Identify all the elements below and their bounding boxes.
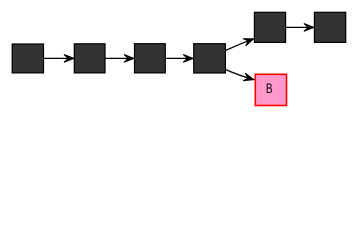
svg-text:B: B (266, 81, 273, 97)
wire edge4 box4->box5 diagonal up (225, 39, 254, 51)
node box2 (74, 44, 105, 73)
node box1 (12, 44, 43, 73)
wire edge1 box1->box2 (44, 57, 75, 59)
node box3 (135, 44, 166, 73)
node box4 (194, 44, 226, 73)
wire edge5 box4->nodeB diagonal down (225, 70, 254, 80)
flowchart diagram (0, 0, 360, 120)
wire edge3 box3->box4 (165, 57, 193, 59)
wire edge2 box2->box3 (105, 57, 134, 59)
node box6 (314, 12, 345, 42)
wire edge6 box5->box6 (286, 26, 315, 28)
node B (pink, red border) (255, 74, 286, 105)
node box5 (254, 12, 285, 42)
